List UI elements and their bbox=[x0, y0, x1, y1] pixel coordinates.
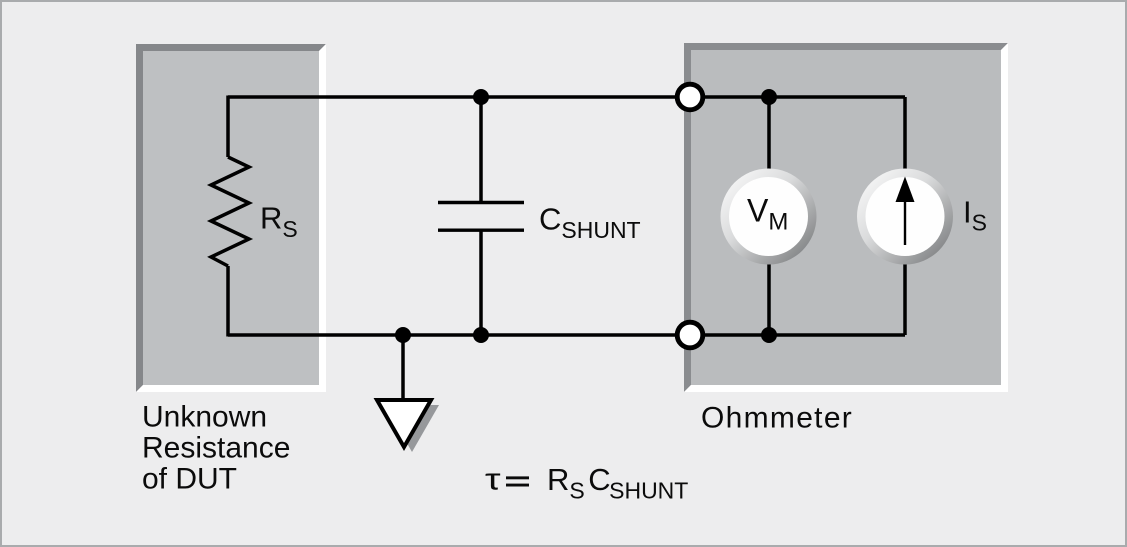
current source lead top bbox=[903, 97, 907, 172]
formula: tau = RS CSHUNT bbox=[485, 462, 688, 504]
capacitor C1 (CSHUNT) top lead bbox=[479, 97, 483, 203]
resistor R1 (RS) bbox=[211, 96, 249, 337]
ground bbox=[377, 400, 439, 452]
terminal: bottom ohmmeter input bbox=[677, 322, 703, 348]
wire: top bus from resistor to current source bbox=[228, 95, 905, 99]
current source U2 (IS) bbox=[857, 169, 953, 265]
svg-text:τ: τ bbox=[485, 462, 501, 497]
wire: bottom bus from resistor to current source bbox=[228, 333, 905, 337]
label: Unknown Resistance of DUT bbox=[142, 401, 290, 496]
svg-text:Resistance: Resistance bbox=[142, 432, 290, 465]
node: top voltmeter junction bbox=[761, 89, 777, 105]
current source lead bottom bbox=[903, 261, 907, 335]
svg-text:Unknown: Unknown bbox=[142, 401, 267, 434]
svg-text:Ohmmeter: Ohmmeter bbox=[701, 402, 853, 435]
node: bottom voltmeter junction bbox=[761, 327, 777, 343]
voltmeter lead top bbox=[767, 97, 771, 172]
svg-text:of DUT: of DUT bbox=[142, 463, 237, 496]
node: bottom capacitor junction bbox=[473, 327, 489, 343]
terminal: top ohmmeter input bbox=[677, 84, 703, 110]
Ohmmeter shaded box bbox=[684, 43, 1008, 392]
voltmeter U1 (VM) bbox=[721, 169, 817, 265]
DUT shaded box bbox=[136, 44, 326, 392]
capacitor C1 plates bbox=[438, 203, 524, 231]
voltmeter lead bottom bbox=[767, 261, 771, 335]
node: top capacitor junction bbox=[473, 89, 489, 105]
wire: ground lead bbox=[401, 335, 405, 399]
capacitor C1 bottom lead bbox=[479, 230, 483, 335]
node: ground junction bbox=[395, 327, 411, 343]
